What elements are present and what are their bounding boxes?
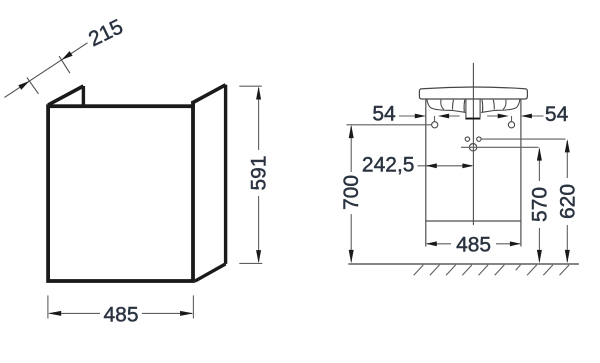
svg-text:54: 54 bbox=[372, 102, 396, 125]
svg-text:215: 215 bbox=[85, 15, 127, 51]
svg-text:485: 485 bbox=[456, 233, 491, 256]
svg-text:620: 620 bbox=[556, 184, 579, 219]
svg-text:54: 54 bbox=[545, 103, 569, 126]
svg-text:242,5: 242,5 bbox=[362, 153, 415, 176]
svg-text:570: 570 bbox=[528, 187, 551, 222]
svg-text:485: 485 bbox=[103, 303, 138, 326]
svg-text:591: 591 bbox=[248, 155, 271, 190]
svg-text:700: 700 bbox=[340, 175, 363, 210]
